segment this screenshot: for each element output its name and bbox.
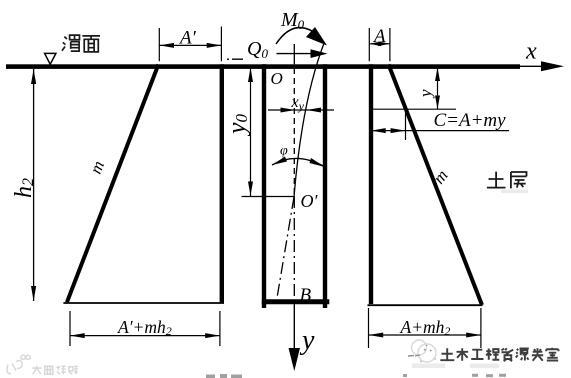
svg-text:O′: O′: [301, 191, 319, 211]
pile vertical axis above ground: [293, 44, 295, 64]
y0 top arrowhead: [248, 67, 253, 82]
pile left edge: [262, 64, 266, 308]
y depth top arrowhead: [435, 68, 440, 82]
label 土层: [487, 172, 527, 189]
A' dimension line: [159, 44, 221, 46]
deflected axis solid upper: [294, 42, 325, 197]
A' dimension extension line left: [158, 28, 160, 61]
C level upper line: [371, 108, 456, 110]
xy right arrowhead: [307, 108, 321, 113]
svg-text:A+mh2: A+mh2: [400, 317, 451, 338]
watermark text 土木工程资源类室: [440, 348, 558, 362]
deflected axis dash-dot lower: [276, 197, 294, 302]
Q0 dash-dot mark: [227, 58, 243, 60]
A' dimension extension line right: [220, 27, 222, 62]
h2 dimension line: [33, 69, 35, 301]
x axis arrowhead: [541, 61, 564, 71]
A'+mh2 right arrowhead: [205, 333, 220, 338]
Q0 arrowhead: [311, 49, 328, 58]
A+mh2 extension line left: [368, 308, 370, 348]
A dimension left arrowhead: [369, 42, 381, 47]
ground line: [6, 64, 520, 69]
right trapezoid left edge: [369, 64, 373, 304]
svg-text:A′+mh2: A′+mh2: [117, 317, 172, 338]
A dimension extension line left: [368, 28, 370, 61]
right trapezoid bottom line: [368, 304, 483, 306]
C level lower line: [371, 130, 509, 132]
A'+mh2 dimension line: [70, 335, 220, 337]
M0 arrowhead: [306, 27, 327, 46]
y0 dimension line: [250, 67, 252, 196]
A' dimension right arrowhead: [207, 43, 222, 48]
svg-text:A: A: [372, 26, 386, 47]
h2 bottom arrowhead: [31, 286, 36, 301]
A'+mh2 extension line right: [219, 311, 221, 346]
pile right edge: [323, 64, 327, 308]
A dimension line: [369, 43, 390, 45]
watermark icon bottom right: [408, 340, 436, 362]
svg-text:x: x: [525, 39, 537, 65]
svg-text:A′: A′: [178, 28, 197, 49]
watermark logo bottom left: [7, 355, 78, 374]
right trapezoid slant edge: [389, 65, 483, 306]
x axis thin line: [520, 65, 545, 67]
pile bottom edge: [262, 299, 330, 304]
left trapezoid slant edge: [67, 65, 158, 303]
A+mh2 left arrowhead: [369, 333, 384, 338]
y axis below pile: [293, 304, 295, 352]
C intersection extension line: [405, 111, 407, 140]
phi right arrowhead: [310, 158, 326, 167]
svg-text:C=A+my: C=A+my: [434, 110, 507, 131]
label 滑面: [62, 35, 100, 52]
y axis arrowhead: [289, 348, 301, 371]
left trapezoid bottom line: [63, 302, 224, 304]
A'+mh2 left arrowhead: [70, 333, 85, 338]
A dimension right arrowhead: [378, 42, 390, 47]
phi left arrowhead: [272, 157, 287, 166]
y depth bottom arrowhead: [435, 96, 440, 110]
svg-text:y: y: [416, 89, 435, 99]
xy left arrowhead: [281, 108, 296, 113]
svg-text:y: y: [299, 325, 315, 356]
O-prime level line: [242, 196, 295, 198]
svg-text:O: O: [271, 69, 283, 88]
A dimension extension line right: [389, 28, 391, 61]
Q0 force arrow line: [277, 53, 316, 55]
svg-text:φ: φ: [280, 144, 288, 159]
h2 top arrowhead: [31, 69, 36, 84]
C width right arrowhead: [391, 128, 406, 133]
svg-text:B: B: [300, 285, 312, 306]
phi arc: [272, 158, 325, 167]
C width left arrowhead: [371, 128, 386, 133]
y0 bottom arrowhead: [248, 182, 253, 197]
A+mh2 dimension line: [369, 334, 481, 336]
pile original axis dash-dot: [293, 196, 295, 299]
M0 moment arc: [276, 28, 312, 44]
A+mh2 right arrowhead: [466, 333, 481, 338]
A+mh2 extension line right: [480, 308, 482, 348]
left trapezoid right edge: [220, 64, 224, 302]
slip-surface triangle: [45, 53, 56, 64]
xy dimension line: [268, 109, 334, 111]
y depth dimension line: [437, 68, 439, 110]
A' dimension left arrowhead: [159, 43, 174, 48]
bottom cutoff marks: [206, 374, 506, 378]
A'+mh2 extension line left: [69, 311, 71, 346]
pile original axis dashed: [293, 68, 295, 196]
